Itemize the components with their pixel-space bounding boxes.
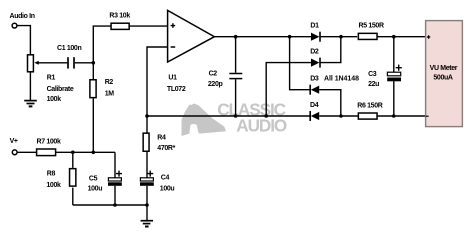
svg-text:R1: R1 [47, 74, 56, 81]
wire R6 to meter - [378, 115, 426, 117]
diode D3 [310, 85, 319, 95]
junction node (C4/rail/ground) [145, 203, 149, 207]
terminal V+ [12, 150, 17, 155]
wire D3 cathode branch from output [290, 37, 311, 90]
VU meter M1 [426, 21, 463, 127]
junction node (output/D3 branch) [288, 35, 292, 39]
ground (below R1) [24, 101, 37, 107]
wire D2 cathode up to node B [321, 37, 341, 63]
junction node (R7/R8) [71, 151, 75, 155]
resistor R6 [358, 113, 377, 119]
svg-text:AUDIO: AUDIO [236, 116, 287, 136]
svg-text:470R*: 470R* [157, 145, 175, 152]
wire C4 bottom to rail [146, 186, 148, 205]
wire C2 branch bottom [235, 79, 237, 116]
wire C3 branch top [393, 37, 395, 72]
junction node (C1/R2/R3) [92, 61, 96, 65]
resistor R2 [90, 80, 96, 98]
junction node (R2/V+ rail) [92, 151, 96, 155]
junction node (R6/C3/meter-) [392, 114, 396, 118]
svg-text:VU Meter: VU Meter [430, 65, 458, 72]
resistor R4 [143, 133, 149, 151]
terminal Audio In [12, 23, 17, 28]
wire D3 anode down to node C [319, 90, 341, 116]
svg-text:V+: V+ [10, 138, 18, 145]
diode D2 [311, 58, 320, 68]
wire D1 cathode to R5 [321, 36, 358, 38]
wire R4 bottom to C4 [146, 152, 148, 178]
R1 wiper arrowhead [34, 61, 39, 65]
wire R2 bottom to V+ rail [92, 98, 94, 152]
diode D1 [311, 32, 320, 42]
wire C1 to node (junction with R2/R3) [75, 62, 94, 64]
wire R8 bottom to rail [72, 188, 74, 205]
wire C3 branch bottom [393, 81, 395, 116]
wire R1 wiper to C1 [38, 62, 67, 64]
resistor R1 (pot body) [28, 55, 34, 72]
svg-text:D3: D3 [310, 76, 319, 83]
resistor R8 [70, 169, 76, 186]
wire D2 anode branch [266, 63, 311, 116]
svg-text:C2: C2 [209, 70, 218, 77]
svg-text:C1 100n: C1 100n [57, 45, 81, 52]
svg-text:Audio In: Audio In [10, 13, 35, 20]
wire feedback row to D4 cathode [147, 115, 310, 117]
svg-text:D4: D4 [310, 102, 319, 109]
resistor R7 [37, 149, 56, 156]
svg-text:100u: 100u [160, 186, 175, 193]
wire D4 anode to R6 [319, 115, 358, 117]
svg-text:22u: 22u [368, 81, 379, 88]
svg-text:C3: C3 [368, 71, 377, 78]
svg-text:TL072: TL072 [167, 86, 186, 93]
svg-text:U1: U1 [168, 75, 177, 82]
svg-text:D1: D1 [310, 23, 319, 30]
junction node (output/C2) [234, 35, 238, 39]
capacitor C5 (electrolytic) [108, 171, 122, 186]
junction node F (feedback/R4) [145, 114, 149, 118]
wire R1 bottom to ground [29, 72, 31, 100]
svg-text:R4: R4 [157, 134, 166, 141]
svg-text:All 1N4148: All 1N4148 [324, 76, 359, 83]
wire R3 left to node [93, 26, 110, 63]
diode D4 [310, 111, 319, 121]
svg-text:R8: R8 [47, 171, 56, 178]
watermark logo [182, 104, 227, 137]
wire rail to ground 2 [146, 205, 148, 220]
wire ground rail [73, 204, 147, 206]
junction node (C5/rail) [113, 203, 117, 207]
junction node (D2 anode) [264, 114, 268, 118]
ground (below C4) [141, 221, 153, 227]
svg-text:C5: C5 [89, 176, 98, 183]
junction node B (D1/D2 cathodes) [339, 35, 343, 39]
svg-text:100k: 100k [47, 96, 62, 103]
svg-text:C4: C4 [161, 174, 170, 181]
svg-text:R6 150R: R6 150R [357, 103, 382, 110]
svg-text:Calibrate: Calibrate [47, 86, 74, 93]
svg-text:R7 100k: R7 100k [37, 138, 61, 145]
svg-text:220p: 220p [208, 81, 223, 88]
svg-text:R3 10k: R3 10k [109, 13, 130, 20]
resistor R5 [358, 33, 377, 39]
wire node to R2 top [92, 63, 94, 79]
svg-text:1M: 1M [105, 91, 115, 98]
capacitor C4 (electrolytic) [140, 171, 154, 186]
junction node (R5/C3/meter+) [392, 35, 396, 39]
resistor R3 [111, 23, 129, 29]
wire R4 top to feedback node [146, 116, 148, 133]
wire V+ to R7 [17, 151, 37, 153]
junction node C (D3/D4 anodes) [339, 114, 343, 118]
wire C5 bottom to rail [114, 186, 116, 205]
wire Audio In to R1 top [17, 26, 31, 55]
junction node (C2 bottom) [234, 114, 238, 118]
capacitor C3 (electrolytic) [387, 65, 402, 82]
wire op-amp -input feedback [147, 47, 168, 116]
op-amp U1 [168, 10, 215, 62]
wire R3 right to op-amp +input [130, 25, 168, 27]
capacitor C2 [229, 74, 242, 79]
svg-text:D2: D2 [310, 48, 319, 55]
svg-text:R5 150R: R5 150R [359, 23, 384, 30]
wire R5 to meter + [378, 36, 426, 38]
wire R8 branch down [72, 152, 74, 168]
wire C2 branch top [235, 37, 237, 73]
wire R7 to C5 corner [56, 151, 115, 153]
svg-text:500uA: 500uA [433, 74, 453, 81]
wire corner down to C5 [114, 152, 116, 178]
svg-text:100u: 100u [88, 186, 103, 193]
svg-text:100k: 100k [46, 182, 61, 189]
capacitor C1 [68, 57, 74, 68]
svg-text:R2: R2 [105, 79, 114, 86]
wire op-amp output to D1 anode [214, 36, 311, 38]
